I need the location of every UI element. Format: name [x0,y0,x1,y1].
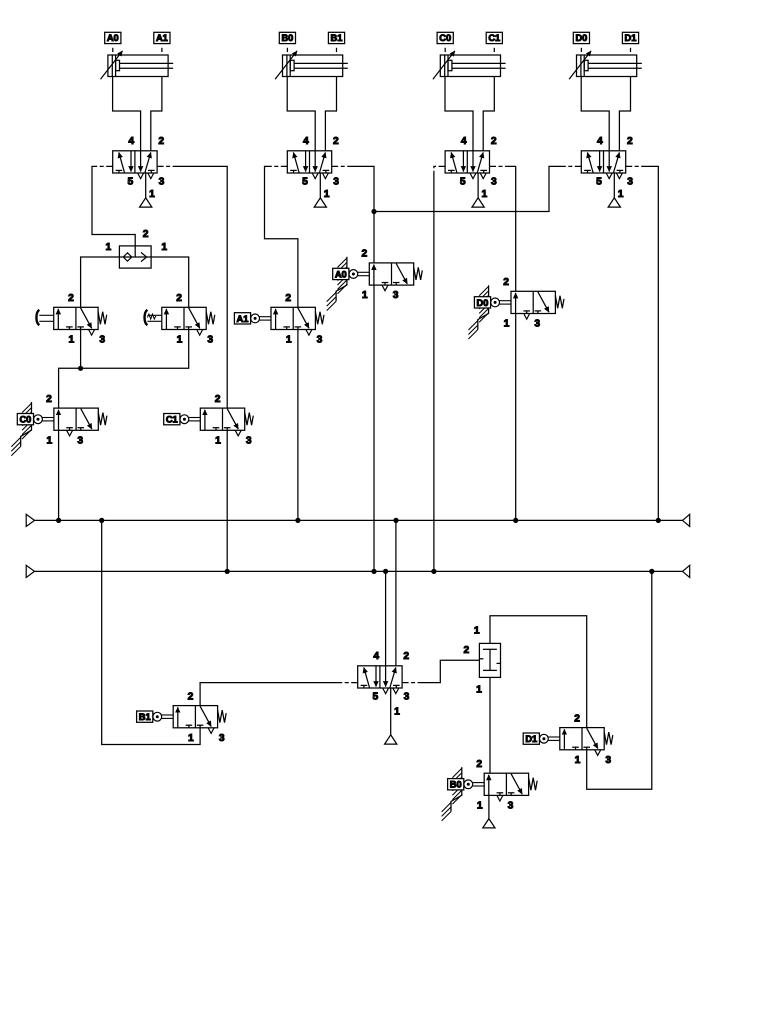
sensor label B1 [328,32,344,52]
svg-text:3: 3 [246,435,252,446]
junction line 2 x=385.6 [383,569,388,574]
sensor label D1 [622,32,638,52]
svg-text:C0: C0 [439,33,451,43]
roller actuator D1 [523,733,560,744]
svg-text:1: 1 [394,707,400,718]
pilot line reversing valve left from valve B1 output [200,683,358,706]
roller valve D1 3/2 [560,713,613,765]
wire line 2 to valve D1 port 1 [587,571,652,789]
wire reversing valve port 4 to line 2 [385,571,387,665]
svg-text:2: 2 [46,394,52,405]
sensor label B0 [279,32,295,52]
svg-text:4: 4 [597,136,603,147]
svg-text:3: 3 [219,733,225,744]
sensor label C1 [486,32,502,52]
wire cylinder D ports to valve D1 [581,77,630,151]
junction line 1 x=58.6 [56,518,61,523]
wire line 1 to valve B1 (bottom) port 1 [102,520,200,744]
svg-text:C0: C0 [19,415,31,425]
svg-text:B1: B1 [139,712,151,722]
roller actuator with cam B0 [442,767,485,821]
junction line 1 x=297.9 [295,518,300,523]
pilot line valve A1 left to shuttle valve [92,166,135,246]
svg-text:B0: B0 [281,33,293,43]
pilot line reversing valve right from AND valve output [402,660,479,682]
air supply valve B0 port 1 [483,795,495,828]
svg-text:2: 2 [68,293,74,304]
valve A1 5/2-way double-pilot [113,136,165,207]
svg-text:1: 1 [161,242,167,253]
svg-text:A1: A1 [156,33,168,43]
svg-text:3: 3 [207,335,213,346]
junction line 1 x=658.3 [656,518,661,523]
svg-text:A1: A1 [237,314,249,324]
svg-text:3: 3 [404,692,410,703]
wire button valves port 1 supply from valve C0 [59,330,189,409]
svg-text:1: 1 [324,189,330,200]
svg-text:1: 1 [477,800,483,811]
svg-text:1: 1 [69,335,75,346]
cylinder B (double-acting, adjustable cushioning) [275,51,348,79]
svg-text:3: 3 [393,290,399,301]
svg-text:1: 1 [177,335,183,346]
svg-text:B0: B0 [450,780,462,790]
roller valve C1 3/2 [200,394,253,446]
svg-text:5: 5 [128,177,134,188]
svg-text:5: 5 [302,177,308,188]
svg-text:5: 5 [596,177,602,188]
sensor label A1 [154,32,170,52]
wire node to valve A0 port 2 [373,212,375,263]
pilot line valve C1 left to line 2 [434,166,445,571]
svg-text:2: 2 [627,136,633,147]
sensor label D0 [573,32,589,52]
svg-text:D1: D1 [525,734,537,744]
reversing valve 5/2-way double-pilot [358,651,410,744]
svg-text:1: 1 [476,684,482,695]
svg-text:2: 2 [403,651,409,662]
junction line 2 x=227.2 [225,569,230,574]
junction line 1 x=101.7 [99,518,104,523]
wire cylinder B ports to valve B1 [287,77,336,151]
roller valve D0 3/2 (actuated) [503,277,564,329]
svg-text:2: 2 [333,136,339,147]
roller actuator B1 [137,711,174,722]
shuttle valve (OR) [106,229,168,268]
pilot line valve B1 right to node [332,166,374,211]
junction line 1 x=515.7 [513,518,518,523]
junction line 2 x=374 [371,569,376,574]
roller actuator with cam D0 [468,285,511,339]
svg-text:2: 2 [176,293,182,304]
valve push-button 3/2 (left) [54,293,107,345]
svg-text:3: 3 [605,755,611,766]
roller actuator C1 [164,414,201,425]
svg-text:5: 5 [460,177,466,188]
junction node valve B1/D1 pilots and valve A0 output [371,209,376,214]
pilot line valve C1 right to valve D0 output [490,166,516,291]
svg-text:3: 3 [534,319,540,330]
svg-text:2: 2 [464,645,470,656]
detent push-button actuator [145,310,162,325]
svg-text:B1: B1 [331,33,343,43]
junction line 1 x=396 [393,518,398,523]
wire shuttle valve right port 1 to detent button valve output [151,257,189,307]
roller valve A1 3/2 [271,293,324,345]
svg-text:1: 1 [618,189,624,200]
junction node button valves supply [78,366,83,371]
roller actuator with cam A0 [327,257,370,311]
cylinder C (double-acting, adjustable cushioning) [433,51,506,79]
svg-text:3: 3 [491,177,497,188]
svg-text:3: 3 [333,177,339,188]
svg-text:1: 1 [47,435,53,446]
svg-text:2: 2 [491,136,497,147]
svg-text:4: 4 [128,136,134,147]
two-pressure valve (AND) [464,626,501,696]
svg-text:3: 3 [317,335,323,346]
svg-text:1: 1 [286,335,292,346]
cylinder D (double-acting, adjustable cushioning) [569,51,642,79]
wire valve C1 port 1 to line 2 [226,430,228,571]
svg-text:D0: D0 [477,298,489,308]
wire valve A1 port 1 to line 1 [297,330,299,521]
svg-text:5: 5 [373,692,379,703]
wire cylinder C ports to valve C1 [445,77,494,151]
svg-text:3: 3 [508,800,514,811]
valve B1 5/2-way double-pilot [287,136,339,207]
wire valve D1 output to AND valve top port 1 [490,616,587,728]
svg-text:2: 2 [362,249,368,260]
roller valve A0 3/2 (actuated) [362,249,423,301]
svg-text:3: 3 [99,335,105,346]
pressure line 2 [26,565,690,577]
svg-text:2: 2 [158,136,164,147]
cylinder A (double-acting, adjustable cushioning) [101,51,174,79]
valve push-button with detent 3/2 (right) [162,293,215,345]
junction line 2 x=651.8 [649,569,654,574]
push-button actuator [36,310,53,325]
sensor label C0 [437,32,453,52]
svg-text:D0: D0 [575,33,587,43]
wire cylinder A ports to valve A1 [113,77,162,151]
svg-text:2: 2 [215,394,221,405]
svg-text:1: 1 [504,319,510,330]
wire AND valve bottom port 1 to valve B0 output [489,677,491,773]
svg-text:4: 4 [373,651,379,662]
svg-text:A0: A0 [335,269,347,279]
pilot line valve A1 right to valve C1 output [157,166,227,408]
svg-text:4: 4 [303,136,309,147]
roller valve C0 3/2 (actuated) [46,394,107,446]
wire valve D0 port 1 to line 1 [515,314,517,521]
svg-text:C1: C1 [488,33,500,43]
svg-text:2: 2 [285,293,291,304]
svg-text:3: 3 [627,177,633,188]
svg-text:1: 1 [474,626,480,637]
wire shuttle valve left port 1 to button valve output [81,257,120,307]
svg-text:1: 1 [188,733,194,744]
svg-text:2: 2 [188,691,194,702]
svg-text:1: 1 [362,290,368,301]
svg-text:4: 4 [461,136,467,147]
svg-text:2: 2 [143,229,149,240]
valve D1 5/2-way double-pilot [581,136,633,207]
svg-text:1: 1 [215,435,221,446]
svg-text:1: 1 [575,755,581,766]
svg-text:A0: A0 [107,33,119,43]
roller valve B1 3/2 [173,691,226,743]
junction line 2 x=433.9 [431,569,436,574]
pilot line valve B1 left to valve A1 output [265,166,298,307]
roller actuator A1 [234,313,271,324]
wire valve A0 port 1 to line 2 [373,285,375,571]
wire reversing valve port 2 to line 1 [395,520,397,665]
svg-text:D1: D1 [625,33,637,43]
wire valve C0 port 1 to line 1 [58,430,60,520]
svg-text:3: 3 [159,177,165,188]
roller actuator with cam C0 [11,402,54,456]
svg-text:2: 2 [574,713,580,724]
svg-text:1: 1 [149,189,155,200]
svg-text:C1: C1 [166,415,178,425]
roller valve B0 3/2 (actuated) [476,759,537,811]
svg-text:1: 1 [482,189,488,200]
svg-text:2: 2 [476,759,482,770]
pilot line valve D1 left to node [374,166,581,211]
pilot line valve D1 right to line 1 [626,166,659,520]
sensor label A0 [105,32,121,52]
pressure line 1 [26,514,690,526]
valve C1 5/2-way double-pilot [445,136,497,207]
svg-text:3: 3 [77,435,83,446]
svg-text:1: 1 [106,242,112,253]
svg-text:2: 2 [503,277,509,288]
